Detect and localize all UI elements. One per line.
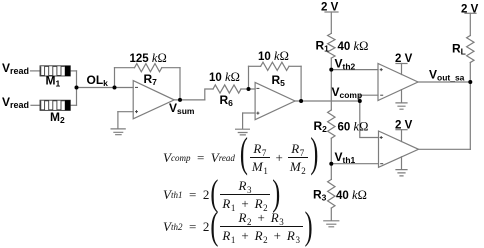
svg-text:OLk: OLk xyxy=(87,73,109,88)
wire R7 feedback left vertical xyxy=(114,68,116,88)
wire U1 output Vsum xyxy=(174,99,205,101)
wire node Vth1 to U4 inverting input xyxy=(331,163,378,165)
node Vth2 junction xyxy=(329,68,333,72)
resistor R7 125k zigzag xyxy=(135,64,162,72)
U1 plus xyxy=(135,110,138,113)
wire M1 output xyxy=(70,70,76,72)
ground U1 xyxy=(111,129,125,135)
svg-text:Vout_sa: Vout_sa xyxy=(429,68,465,83)
resistor R6 10k zigzag xyxy=(213,85,241,93)
svg-text:10 kΩ: 10 kΩ xyxy=(209,70,240,84)
node R7 tap junction xyxy=(113,86,117,90)
equation Vth2 xyxy=(163,211,314,242)
wire R7 feedback right vertical to U1 output xyxy=(179,68,181,100)
wire U4 output xyxy=(419,148,471,150)
wire R5 feedback left vertical xyxy=(248,66,250,89)
wire R5 feedback right vertical to U2 output xyxy=(300,66,302,101)
wire R3 to ground xyxy=(330,208,332,220)
ground U4 xyxy=(396,170,407,176)
wire U4 supply stub xyxy=(401,130,403,142)
op-amp U1 triangle xyxy=(133,81,174,119)
resistor R3 40k zigzag xyxy=(328,179,335,208)
svg-text:2 V: 2 V xyxy=(321,2,339,14)
wire RL to Voutsa node xyxy=(469,63,471,83)
ground U2 xyxy=(236,129,250,135)
resistor R1 40k zigzag xyxy=(328,33,335,58)
svg-text:2 V: 2 V xyxy=(461,4,479,16)
wire R1 to node Vth2 xyxy=(330,58,332,70)
wire U1 ground stub xyxy=(117,112,119,129)
svg-text:Vth2: Vth2 xyxy=(335,57,356,72)
power 2V bar U4 xyxy=(396,129,407,131)
wire R2 to node Vth1 xyxy=(330,138,332,163)
U1 minus xyxy=(135,86,138,88)
U4 plus xyxy=(380,136,383,139)
wire Vread to M1 xyxy=(31,70,41,72)
node R5 tap junction xyxy=(247,87,251,91)
op-amp input polarity marks xyxy=(135,68,383,164)
power 2V bar top of ladder xyxy=(325,11,338,13)
comparator U4 triangle xyxy=(379,131,419,167)
wire ladder Vth2 to R2 (crosses Vcomp wire) xyxy=(330,70,332,110)
memristor M1 xyxy=(40,66,70,76)
wire R5 feedback top left xyxy=(249,65,261,67)
svg-text:R7: R7 xyxy=(144,72,158,87)
U3 minus xyxy=(380,94,383,96)
wire U3 output Voutsa xyxy=(418,81,470,83)
node U2 output feedback junction xyxy=(299,99,303,103)
wire 2V to RL xyxy=(469,13,471,35)
power 2V bar RL xyxy=(465,12,476,14)
wire M2 output xyxy=(70,104,76,106)
svg-text:10 kΩ: 10 kΩ xyxy=(258,49,289,63)
svg-text:125 kΩ: 125 kΩ xyxy=(130,51,167,65)
svg-text:40 kΩ: 40 kΩ xyxy=(338,39,369,53)
wire step up to R6 xyxy=(205,89,213,100)
svg-text:R3: R3 xyxy=(313,188,327,203)
svg-text:Vth1: Vth1 xyxy=(335,150,356,165)
resistor RL zigzag xyxy=(467,36,474,63)
svg-text:R5: R5 xyxy=(272,73,286,88)
equation Vth1 xyxy=(163,179,281,210)
power 2V bar U3 xyxy=(396,63,407,65)
svg-text:40 kΩ: 40 kΩ xyxy=(336,188,367,202)
svg-text:M2: M2 xyxy=(50,110,65,125)
wire U2 ground stub xyxy=(242,113,244,129)
wire U3 ground stub xyxy=(401,90,403,103)
svg-text:Vread: Vread xyxy=(2,61,29,76)
wire node OLk to op-amp U1 inverting input xyxy=(77,87,134,89)
wire R6 to U2 inverting input xyxy=(241,88,255,90)
op-amp U2 triangle xyxy=(255,83,295,120)
equation Vcomp xyxy=(163,142,319,173)
U3 plus xyxy=(380,68,383,71)
svg-text:RL: RL xyxy=(452,42,466,57)
svg-text:Vread: Vread xyxy=(2,95,29,110)
U2 plus xyxy=(256,112,259,115)
memristor M2 xyxy=(40,100,70,110)
svg-text:2 V: 2 V xyxy=(395,119,413,131)
wire joining M1 and M2 xyxy=(76,71,78,105)
wire U1 noninverting input xyxy=(118,111,133,113)
wire Vcomp jog up to U3 inverting input xyxy=(360,95,378,101)
wire U4 ground stub xyxy=(401,157,403,169)
svg-text:2 V: 2 V xyxy=(395,53,413,65)
wire node Vth2 to U3 noninverting input xyxy=(331,69,378,71)
svg-text:Vcomp: Vcomp xyxy=(332,85,363,100)
resistor R5 10k zigzag xyxy=(261,62,289,70)
resistor R2 60k zigzag xyxy=(328,110,335,138)
comparator U3 triangle xyxy=(378,64,418,101)
wire Vth1 to R3 xyxy=(330,164,332,180)
ground U3 xyxy=(396,103,407,109)
node Voutsa junction xyxy=(468,80,472,84)
wire U2 noninverting input xyxy=(243,112,256,114)
wire 2V to R1 xyxy=(330,12,332,33)
wire U2 output Vcomp xyxy=(295,100,360,102)
wire Vread to M2 xyxy=(31,104,40,106)
node Vsum junction xyxy=(178,98,182,102)
svg-text:Vsum: Vsum xyxy=(169,101,195,116)
svg-text:60 kΩ: 60 kΩ xyxy=(338,120,369,134)
node Vcomp branch junction xyxy=(358,99,362,103)
wire Vcomp branch down to U4 noninverting input xyxy=(360,101,379,138)
wire U3 supply stub xyxy=(401,64,403,75)
node OLk junction xyxy=(75,86,79,90)
svg-text:R6: R6 xyxy=(220,93,234,108)
node Vth1 junction xyxy=(329,162,333,166)
U4 minus xyxy=(380,163,383,165)
wire R7 feedback top left xyxy=(115,67,135,69)
wire U4 output up to Voutsa node xyxy=(469,82,471,149)
U2 minus xyxy=(256,87,259,89)
svg-text:R1: R1 xyxy=(316,39,330,54)
wire R5 feedback top right xyxy=(289,65,301,67)
wire R7 feedback top right xyxy=(162,67,180,69)
ground ladder xyxy=(324,221,339,227)
